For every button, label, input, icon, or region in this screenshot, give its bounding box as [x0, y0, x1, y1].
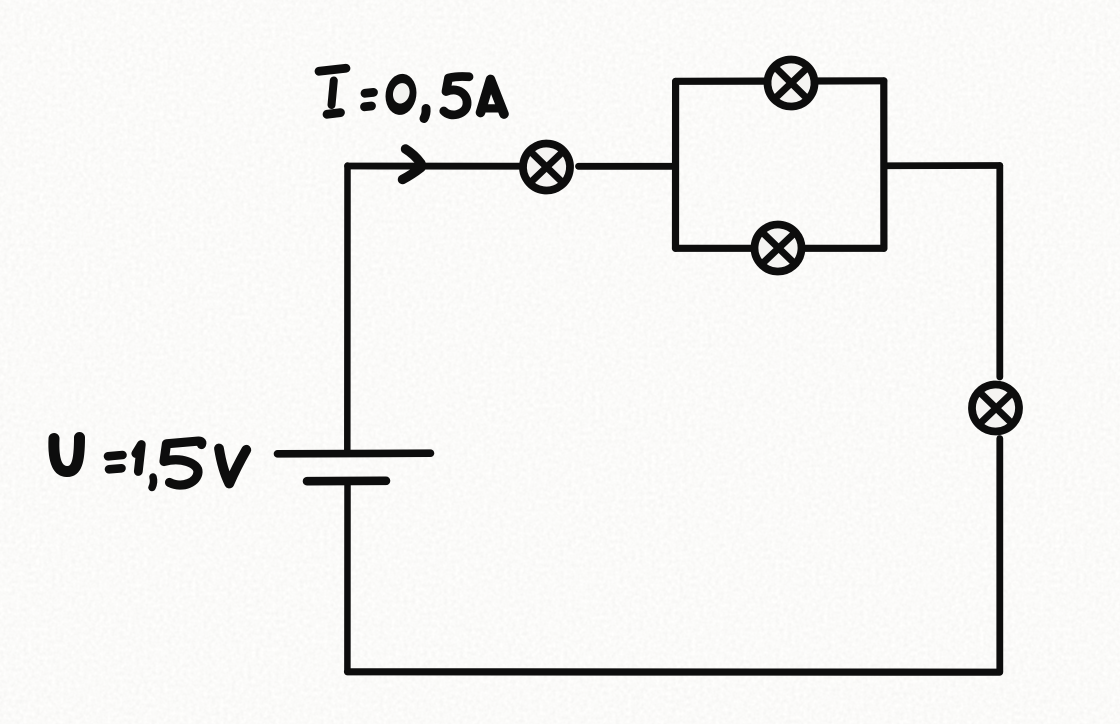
wire: bottom horizontal — [348, 668, 1000, 676]
wire: parallel block bottom branch — [676, 245, 884, 252]
wire: right vertical (lower, below lamp L4) — [996, 439, 1003, 673]
battery cell: short plate (negative) — [307, 476, 386, 485]
wire: left vertical (battery bottom lead) — [344, 485, 351, 672]
lamp L2 parallel top branch — [765, 57, 817, 109]
current direction arrow — [406, 149, 422, 164]
wire: top horizontal from battery branch to lamp L1 — [348, 163, 521, 170]
label I=0,5A (current annotation) — [319, 68, 504, 118]
wire: top horizontal from lamp L1 to parallel block — [579, 163, 676, 170]
wire: parallel block top branch — [676, 77, 884, 85]
wire: left vertical (battery top lead) — [344, 166, 351, 451]
lamp L3 parallel bottom branch — [753, 223, 804, 274]
wire: right vertical (upper, above lamp L4) — [996, 166, 1003, 378]
lamp L1 on top wire — [520, 140, 573, 193]
lamp L4 on right vertical wire — [970, 383, 1020, 433]
wire: connector from parallel block to right vertical — [884, 162, 1000, 169]
wire: parallel block right vertical — [880, 81, 887, 249]
wire: parallel block left vertical — [672, 82, 679, 249]
label U=1,5V (voltage annotation) — [54, 438, 246, 488]
battery cell: long plate (positive) — [278, 449, 431, 457]
